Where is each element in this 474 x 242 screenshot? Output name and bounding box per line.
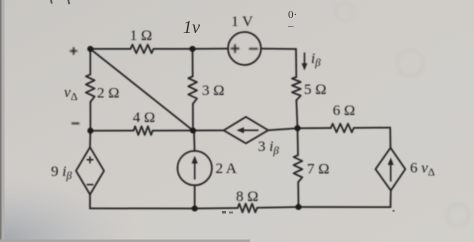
plus in 9i source xyxy=(87,156,94,163)
wire 1-ohm to node B xyxy=(154,48,193,50)
wire corner J down to 6v source xyxy=(389,128,391,148)
minus left branch xyxy=(72,122,80,124)
svg-text:3 Ω: 3 Ω xyxy=(202,83,224,99)
voltage source 1V xyxy=(228,32,261,65)
resistor 6 ohm xyxy=(331,124,354,133)
wire node E to dep source xyxy=(193,129,224,131)
arrow in 3i-beta source xyxy=(243,129,259,131)
node F xyxy=(87,128,93,134)
dependent current source 6v-delta diamond xyxy=(376,148,406,191)
wire node F down to 9i source xyxy=(89,131,91,148)
svg-text:2 Ω: 2 Ω xyxy=(97,86,119,102)
svg-text:8 Ω: 8 Ω xyxy=(236,189,258,205)
wire corner K to node I xyxy=(299,206,391,208)
current source 2A xyxy=(178,151,212,185)
wire node D to 6-ohm xyxy=(298,127,331,129)
node dots xyxy=(87,46,301,212)
arrow in 2A source xyxy=(194,162,196,180)
wire 2A to node H xyxy=(194,185,196,208)
wire 8-ohm to node I xyxy=(257,206,298,209)
svg-text:1 Ω: 1 Ω xyxy=(130,28,152,44)
resistor 4 ohm xyxy=(134,126,153,135)
wire corner C down to 5-ohm xyxy=(295,49,297,77)
node A xyxy=(87,46,93,52)
node D xyxy=(294,125,300,131)
wire 2-ohm to node F xyxy=(89,102,91,131)
resistor 7 ohm xyxy=(294,155,303,182)
arrows xyxy=(192,53,394,182)
resistor R 1 ohm xyxy=(131,45,154,54)
resistor 8 ohm xyxy=(238,204,258,213)
node E xyxy=(190,127,196,133)
svg-text:1 V: 1 V xyxy=(231,14,253,30)
minus in 9i source xyxy=(87,184,94,186)
bottom-left corner shadow xyxy=(0,172,140,242)
node I xyxy=(295,204,301,210)
wire corner G to node H xyxy=(90,207,195,209)
wire node E down to 2A source xyxy=(193,131,196,151)
wire node H to 8-ohm xyxy=(195,207,238,210)
svg-text:–: – xyxy=(287,20,294,32)
wire 9i source to corner G xyxy=(89,195,91,209)
svg-text:7 Ω: 7 Ω xyxy=(307,162,329,178)
svg-text:5 Ω: 5 Ω xyxy=(304,82,326,98)
dependent current source 3 i-beta diamond xyxy=(224,117,269,143)
wire node D down to 7-ohm xyxy=(297,128,300,155)
ink specks xyxy=(222,211,226,214)
svg-text:6 Ω: 6 Ω xyxy=(333,103,355,119)
plus left branch xyxy=(70,47,78,55)
wire 4-ohm to node E xyxy=(153,130,193,132)
wire dep source to node D xyxy=(268,128,297,130)
dependent voltage source 9 i-beta diamond xyxy=(76,147,104,194)
cut handwriting top edge xyxy=(51,0,69,4)
resistor 3 ohm xyxy=(188,76,197,103)
wire 5-ohm to node D xyxy=(296,100,297,128)
i-beta current arrow xyxy=(304,53,306,65)
svg-text:4 Ω: 4 Ω xyxy=(133,110,155,126)
wire 1V to corner C xyxy=(261,48,296,50)
wire 6-ohm to corner J xyxy=(354,127,390,129)
minus in 1V xyxy=(249,48,258,50)
svg-text:2 A: 2 A xyxy=(216,161,237,177)
svg-text:1v: 1v xyxy=(183,17,200,37)
arrow in 6v-delta source xyxy=(390,164,392,182)
wire node B to 1V source xyxy=(193,48,229,50)
bottom edge shading xyxy=(0,240,250,242)
wire node F to 4-ohm xyxy=(90,130,133,132)
plus in 1V xyxy=(231,44,240,53)
wire 3-ohm to node E xyxy=(192,104,194,131)
left page edge shadow xyxy=(0,0,2,242)
ghost blob right xyxy=(397,50,423,76)
node H xyxy=(192,205,198,211)
wire 6v source to corner K xyxy=(390,191,392,208)
resistor 2 ohm xyxy=(86,75,95,102)
wire 7-ohm to node I xyxy=(297,182,299,207)
node B xyxy=(189,46,195,52)
resistor 5 ohm xyxy=(292,77,301,100)
wire B down to 3-ohm xyxy=(192,49,194,77)
wire diagonal A to E xyxy=(90,49,193,131)
wire A down to 2-ohm xyxy=(89,49,91,75)
wire top-left A to 1-ohm xyxy=(90,48,130,50)
